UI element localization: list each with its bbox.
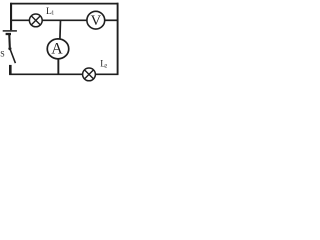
lamp L1: [29, 14, 42, 27]
svg-text:V: V: [91, 13, 102, 29]
wire: left vertical from top-left corner to battery: [10, 3, 12, 30]
switch S pivot dot: [8, 47, 11, 50]
switch S lower contact lead: [9, 65, 12, 75]
battery B1 short plate: [6, 33, 11, 35]
ammeter U2: [47, 39, 69, 59]
svg-text:S: S: [0, 49, 4, 58]
wire: voltmeter V to right vertical: [105, 19, 118, 21]
svg-text:2: 2: [105, 64, 108, 70]
wire: lamp L1 to voltmeter V: [42, 19, 86, 21]
battery B1 long plate: [3, 30, 17, 32]
svg-text:1: 1: [51, 11, 54, 17]
wire: bottom rail left segment (switch corner to lamp L2): [9, 73, 83, 75]
wire: battery bottom lead to switch pivot: [8, 35, 11, 47]
lamp L2: [83, 68, 96, 81]
wire: middle branch, left wire to lamp L1: [11, 19, 30, 21]
wire: ammeter bottom lead to bottom rail: [57, 59, 59, 75]
switch S blade: [10, 50, 15, 64]
svg-text:A: A: [51, 41, 63, 58]
wire: ammeter top lead from junction on middle branch: [59, 20, 62, 39]
voltmeter U1: [87, 11, 105, 29]
wire: right vertical: [117, 3, 119, 75]
wire: top rail: [10, 3, 118, 5]
wire: bottom rail right segment (lamp L2 to bottom-right corner): [95, 73, 118, 75]
